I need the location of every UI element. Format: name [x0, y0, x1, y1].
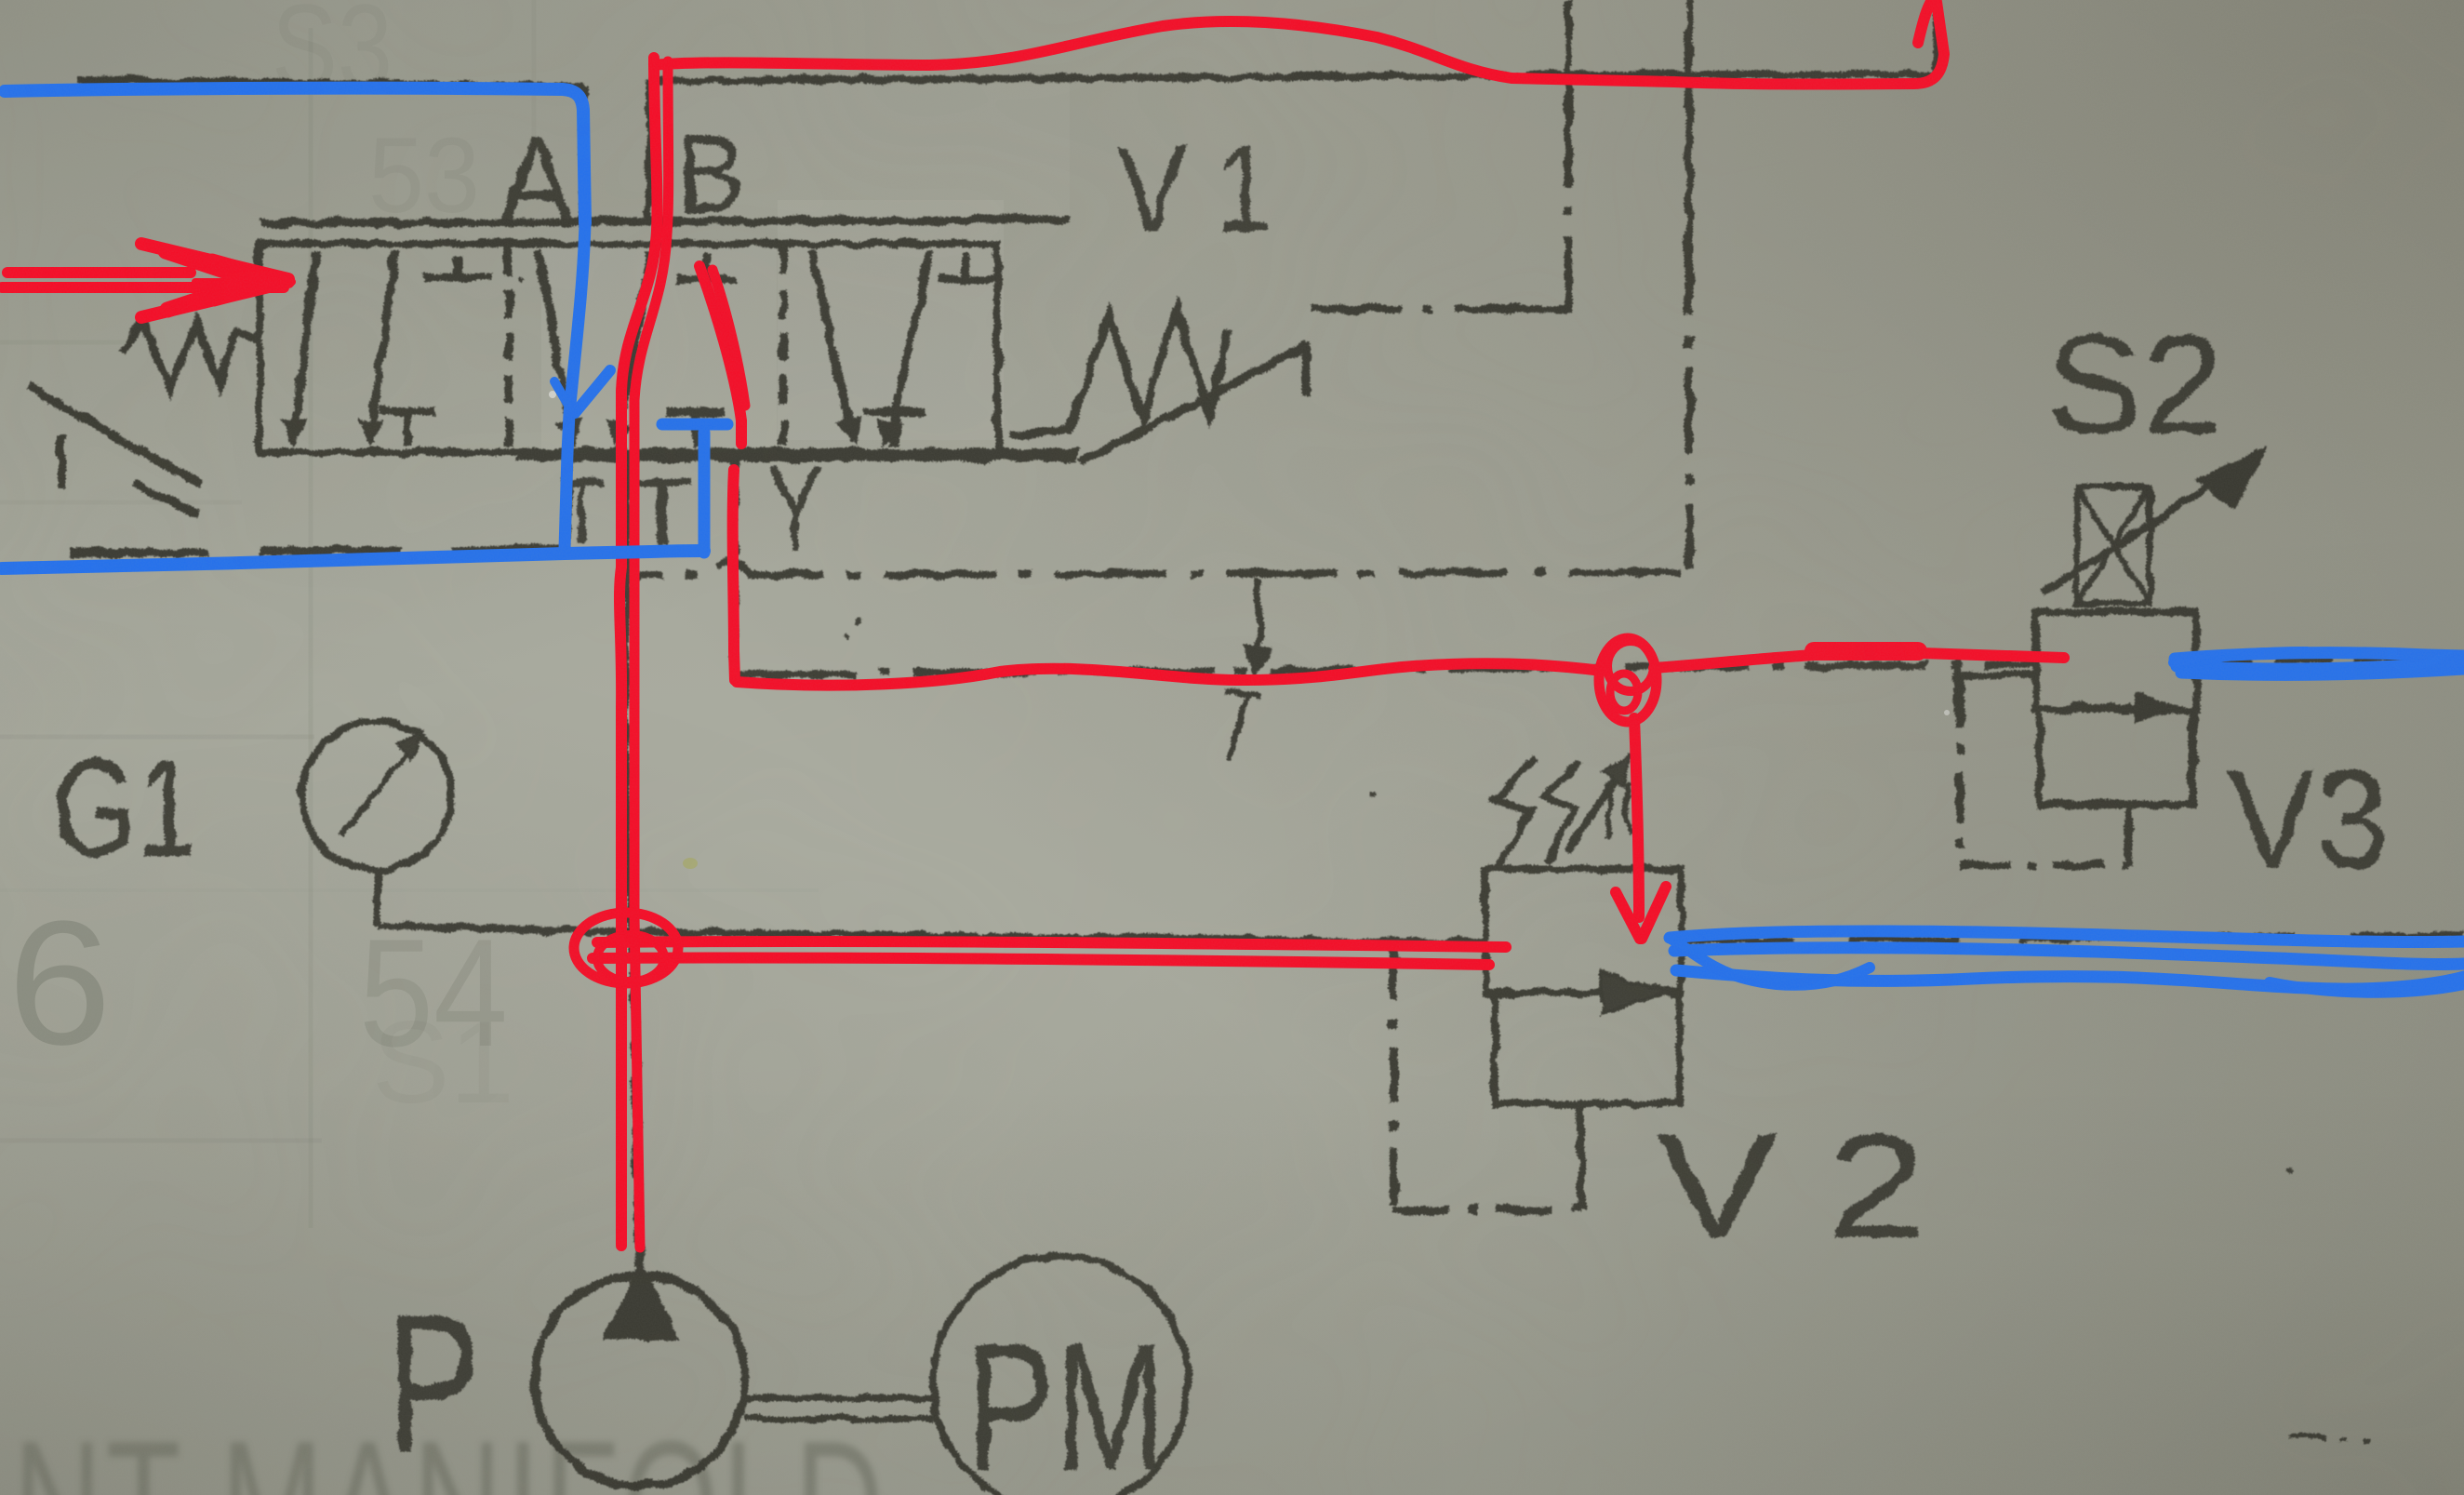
- pump P circle: [535, 1275, 745, 1486]
- gauge G1 stem: [374, 870, 381, 926]
- V3 left port line: [1957, 672, 2036, 679]
- V1 right section flow path 2: [888, 251, 930, 443]
- V2 squiggle ticks: [1606, 781, 1631, 837]
- pilot vertical right dash-dot: [1685, 233, 1694, 569]
- V1 right section arrowhead 2: [879, 420, 899, 445]
- white speck: [1944, 710, 1950, 715]
- pilot vertical right solid top: [1685, 0, 1693, 233]
- V1 left section arrowhead 1: [284, 420, 305, 445]
- motor PM circle: [933, 1256, 1188, 1495]
- V1 middle section flow path 1: [538, 249, 573, 443]
- V2 bottom stem: [1578, 1104, 1585, 1209]
- relief valve V3 upper box: [2036, 612, 2196, 710]
- S2 adjust arrow with slash: [2044, 473, 2231, 593]
- drain arrow symbol: [1256, 579, 1260, 668]
- valve V1 divider dashed left: [505, 247, 513, 448]
- blue annotation: V2 outlet band stroke 3: [1676, 970, 2464, 989]
- blue annotation: riser at T port: [699, 433, 711, 553]
- gauge G1 needle: [340, 738, 420, 836]
- V1 left return spring: [122, 322, 257, 388]
- pilot corner solid: [1535, 279, 1568, 310]
- V2 pilot frame dash-dot vertical: [1390, 945, 1398, 1211]
- pump outlet triangle: [606, 1265, 675, 1338]
- blue annotation: trace through valve A passage: [567, 223, 585, 453]
- greenish smudge: [683, 858, 698, 869]
- pilot riser dash-dot: [1565, 149, 1573, 309]
- V1 right section arrowhead 1: [839, 419, 860, 445]
- blue annotation: V3 outlet band stroke 1: [2175, 653, 2464, 659]
- red annotation: double line junction to V2 lower: [593, 957, 1489, 965]
- wire junction to V2: [641, 932, 1485, 942]
- red annotation: inlet arrow shaft upper: [7, 267, 191, 278]
- red annotation: drain line continue to V3: [1654, 652, 2064, 668]
- V1 right pilot lever: [1081, 342, 1306, 462]
- sequence valve V2 upper box: [1485, 869, 1682, 993]
- tank line long-dash to left edge: [70, 549, 569, 554]
- red annotation: pressure trace vertical stroke 1: [619, 58, 657, 1246]
- V3 internal arrow: [2072, 703, 2130, 711]
- blue annotation: T cap bar: [662, 419, 727, 431]
- V1 right return spring: [1009, 309, 1230, 435]
- pilot line dash-dot to top: [1313, 305, 1568, 314]
- red annotation: double line junction to V2 upper: [597, 941, 1506, 947]
- V3 drain frame dash-dot vertical: [1956, 677, 1965, 865]
- blue annotation: V2 outlet band stroke 1: [1670, 931, 2464, 942]
- red annotation: pressure trace vertical stroke 2: [634, 61, 669, 1248]
- V1 middle section arrowhead 2: [608, 420, 629, 445]
- red annotation: overdrawn thick segment: [1814, 642, 1918, 661]
- relief valve V3 lower box: [2040, 710, 2192, 805]
- faint pencil grid line horizontal: [0, 501, 242, 505]
- red annotation: arrow down to V2: [1634, 718, 1639, 917]
- wire top-right corner up: [1933, 0, 1940, 76]
- red annotation: inlet arrow shaft lower: [2, 282, 284, 293]
- V1 left section blocked port T top: [423, 255, 491, 277]
- wire B-port top rail: [648, 74, 1937, 81]
- drain line dash-dot to V3: [735, 664, 2036, 674]
- faint pencil grid line horizontal: [0, 1139, 322, 1143]
- valve V1 top rail: [261, 220, 1068, 223]
- blue annotation: V2 outlet band stroke 2: [1674, 948, 2464, 965]
- valve V1 divider dashed right: [779, 247, 788, 448]
- wire A-port drop: [579, 87, 587, 223]
- red annotation: drop below valve to drain line: [733, 470, 735, 680]
- V1 middle section blocked port T bottom: [667, 412, 725, 447]
- gauge G1 body: [302, 721, 451, 870]
- V1 right section blocked port T bottom: [863, 412, 926, 447]
- red annotation: branch through valve to Y: [699, 266, 741, 444]
- V1 middle section arrowhead 1: [558, 419, 579, 445]
- wire B-port drop: [646, 80, 653, 223]
- valve V1 body box: [259, 244, 997, 452]
- faint pencil grid line vertical short: [532, 0, 537, 154]
- ink specks: [855, 617, 862, 624]
- V1 right section blocked port T top: [938, 253, 993, 279]
- faint pencil grid line horizontal: [0, 340, 132, 345]
- faint pencil grid line horizontal: [0, 735, 314, 740]
- V2 internal arrow: [1495, 989, 1602, 996]
- red annotation: junction circle at drain tee: [1599, 638, 1657, 722]
- V1 left manual lever: [28, 386, 202, 514]
- V1 left section arrowhead 2: [361, 420, 382, 445]
- pump-motor shaft: [744, 1398, 934, 1419]
- blue annotation: tank line to left edge: [2, 551, 704, 568]
- pasted patch over V1 right section: [778, 200, 1004, 440]
- wire V2 to right edge: [1682, 935, 2464, 941]
- wire A-port top rail: [78, 80, 583, 87]
- V1 left section flow path 2: [370, 251, 395, 443]
- red annotation: wavy line along drain to junction: [737, 663, 1602, 685]
- blue annotation: top line to A port: [5, 88, 585, 223]
- faint pencil grid line vertical: [309, 28, 313, 1228]
- V1 left section blocked port T bottom: [380, 411, 435, 445]
- V1 right section flow path 1: [811, 249, 854, 443]
- drain drop below valve: [732, 456, 739, 675]
- V2 pilot arrow: [1567, 770, 1622, 851]
- valve V1 thick bottom rail: [517, 448, 1077, 461]
- wire gauge to junction: [378, 926, 641, 932]
- red annotation: top long line over B rail: [654, 2, 1944, 85]
- wire V3 right dashed: [2196, 657, 2464, 662]
- V1 middle section flow path 2: [618, 251, 651, 443]
- pasted patch above valve B region: [649, 84, 1070, 220]
- V2 spring squiggle: [1496, 758, 1535, 870]
- blue annotation: V2 outlet band stroke 5: [2270, 982, 2464, 993]
- red annotation: inlet arrow thin tail: [195, 278, 292, 286]
- pilot line lower dash-dot with hop: [625, 561, 1680, 577]
- sequence valve V2 lower box: [1495, 993, 1680, 1104]
- blue annotation: V3 outlet band stroke 2: [2177, 662, 2464, 674]
- blue annotation: V3 outlet band stroke 3: [2174, 652, 2307, 662]
- V3 drain frame dash-dot horizontal: [1960, 861, 2128, 870]
- pasted patch over V1 middle section: [541, 242, 777, 453]
- blue annotation: V2 outlet band loop: [1670, 938, 1870, 985]
- V1 middle section blocked port T top: [675, 253, 737, 279]
- bottom right small dashes: [2288, 1437, 2370, 1440]
- pilot riser solid top: [1565, 0, 1572, 154]
- red annotation: junction circle at pump tee: [574, 913, 678, 983]
- white speck: [549, 391, 556, 398]
- V3 bottom stem: [2124, 805, 2132, 865]
- port T stub below valve: [565, 456, 572, 556]
- V1 left section flow path 1: [293, 251, 316, 443]
- V2 pilot frame dash-dot horizontal: [1393, 1208, 1581, 1211]
- red annotation: inlet arrow head strokes: [141, 244, 288, 279]
- S2 pilot head box with X: [2077, 487, 2150, 604]
- red annotation: top right check mark: [1918, 0, 1932, 43]
- blue annotation: arrow barb in valve: [575, 370, 610, 413]
- blue annotation: T-port drop below valve: [565, 453, 567, 549]
- faint pencil grid line horizontal long: [0, 888, 819, 892]
- pressure line P vertical: [625, 456, 639, 1267]
